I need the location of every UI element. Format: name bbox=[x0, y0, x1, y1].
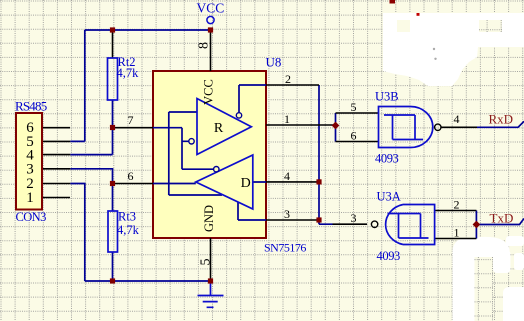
svg-text:2: 2 bbox=[285, 72, 291, 86]
svg-text:3: 3 bbox=[284, 207, 290, 221]
svg-text:5: 5 bbox=[198, 259, 213, 266]
svg-text:2: 2 bbox=[454, 198, 460, 212]
svg-text:RxD: RxD bbox=[489, 112, 514, 127]
svg-text:U8: U8 bbox=[266, 55, 282, 70]
svg-text:Rt3: Rt3 bbox=[118, 210, 136, 224]
svg-text:RS485: RS485 bbox=[15, 99, 47, 114]
svg-text:R: R bbox=[214, 121, 224, 136]
svg-text:8: 8 bbox=[196, 42, 211, 49]
svg-text:D: D bbox=[241, 176, 251, 191]
svg-text:4: 4 bbox=[454, 112, 460, 126]
svg-text:6: 6 bbox=[351, 129, 357, 143]
svg-text:1: 1 bbox=[26, 190, 34, 206]
svg-text:VCC: VCC bbox=[197, 1, 225, 16]
svg-text:4,7k: 4,7k bbox=[117, 66, 140, 80]
svg-text:VCC: VCC bbox=[202, 79, 216, 105]
svg-text:U3B: U3B bbox=[375, 90, 399, 104]
svg-text:6: 6 bbox=[128, 169, 134, 183]
svg-text:1: 1 bbox=[454, 226, 460, 240]
svg-text:4,7k: 4,7k bbox=[117, 223, 140, 237]
svg-text:7: 7 bbox=[128, 113, 134, 127]
svg-text:4: 4 bbox=[284, 169, 290, 183]
svg-text:5: 5 bbox=[351, 100, 357, 114]
svg-text:SN75176: SN75176 bbox=[264, 241, 306, 255]
svg-text:TxD: TxD bbox=[490, 211, 514, 226]
svg-text:CON3: CON3 bbox=[16, 210, 47, 224]
svg-text:4093: 4093 bbox=[375, 152, 399, 166]
svg-text:3: 3 bbox=[351, 211, 357, 225]
svg-text:4093: 4093 bbox=[377, 249, 401, 263]
svg-text:1: 1 bbox=[284, 112, 290, 126]
svg-text:GND: GND bbox=[202, 205, 216, 232]
svg-text:U3A: U3A bbox=[377, 190, 401, 204]
